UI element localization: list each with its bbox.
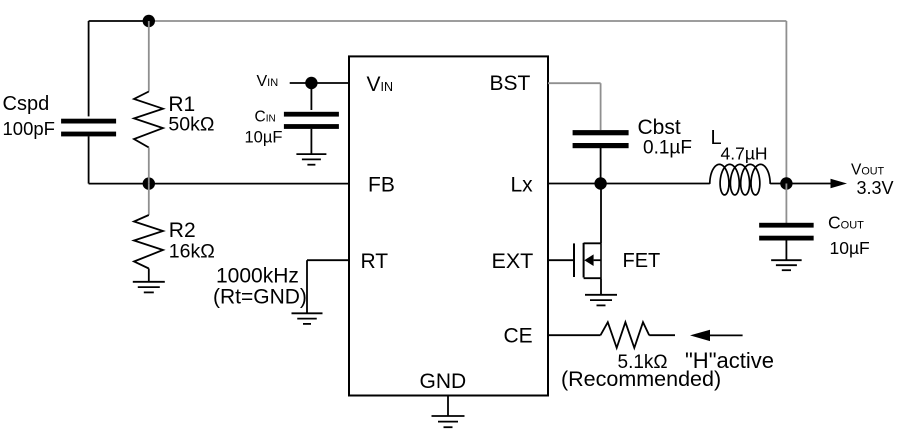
svg-text:4.7µH: 4.7µH <box>721 143 768 163</box>
wire Cbst bottom lead <box>600 148 602 184</box>
wire top-left horizontal <box>89 20 149 22</box>
junction dot VIN node <box>305 77 317 89</box>
svg-text:FB: FB <box>368 173 395 196</box>
svg-text:(Rt=GND): (Rt=GND) <box>213 286 307 309</box>
svg-text:BST: BST <box>490 72 531 95</box>
wire RT horizontal <box>307 259 349 261</box>
svg-text:0.1µF: 0.1µF <box>643 138 692 159</box>
arrow CE H-active (points left) <box>690 330 710 341</box>
capacitor CIN <box>284 112 339 117</box>
ground R2 <box>133 282 165 293</box>
svg-text:CIN: CIN <box>255 108 276 125</box>
svg-text:Lx: Lx <box>511 173 534 196</box>
capacitor Cspd <box>61 119 116 124</box>
wire Lx from IC <box>548 183 601 185</box>
wire R2 top lead <box>148 184 150 215</box>
svg-text:Cbst: Cbst <box>638 116 681 139</box>
wire FET source horizontal <box>584 277 601 279</box>
svg-text:3.3V: 3.3V <box>857 178 894 198</box>
wire BST vertical to Cbst <box>600 83 602 130</box>
svg-text:10µF: 10µF <box>830 238 870 258</box>
svg-text:EXT: EXT <box>492 249 534 273</box>
ground COUT <box>771 260 802 270</box>
ground CIN <box>296 154 326 165</box>
wire R1 top lead <box>148 21 150 92</box>
junction dot node A (top) <box>143 15 155 27</box>
capacitor Cbst <box>573 130 629 135</box>
wire right vertical down to Lx node <box>785 21 787 184</box>
op-amp/IC block U1 body <box>349 56 548 395</box>
svg-text:COUT: COUT <box>828 213 864 233</box>
wire CE arrow tail <box>710 334 743 336</box>
inductor L coil <box>710 164 770 195</box>
svg-text:RT: RT <box>361 250 389 273</box>
svg-text:CE: CE <box>504 325 533 348</box>
ground IC GND <box>432 416 465 427</box>
wire RT vertical to ground <box>306 260 308 313</box>
wire inductor to VOUT node <box>770 183 786 185</box>
svg-text:50kΩ: 50kΩ <box>168 113 214 135</box>
ground FET <box>585 295 617 306</box>
wire VOUT arrow lead <box>786 183 830 185</box>
svg-text:FET: FET <box>623 250 661 272</box>
svg-text:10µF: 10µF <box>245 129 283 147</box>
svg-text:(Recommended): (Recommended) <box>561 367 721 391</box>
resistor 5.1k zigzag <box>601 322 650 348</box>
arrow FET body (points left) <box>584 254 593 266</box>
resistor R1 zigzag <box>134 92 163 148</box>
resistor R2 zigzag <box>134 215 163 269</box>
wire Lx to inductor <box>601 183 710 185</box>
svg-text:Cspd: Cspd <box>3 93 50 115</box>
arrow VOUT output <box>831 179 848 188</box>
transistor Q1 FET channel bar <box>583 243 585 278</box>
svg-text:GND: GND <box>420 370 467 393</box>
ground RT <box>292 313 323 324</box>
wire CE from IC <box>548 334 601 336</box>
svg-text:100pF: 100pF <box>3 118 55 139</box>
wire VIN to IC <box>290 82 349 84</box>
transistor Q1 FET gate bar <box>573 243 575 277</box>
junction dot FB node <box>143 177 155 189</box>
wire top net (node A to VOUT column) <box>149 20 787 22</box>
wire R1 bottom lead <box>148 148 150 184</box>
wire COUT bottom lead <box>785 240 787 260</box>
svg-text:R2: R2 <box>169 219 196 242</box>
wire EXT to FET gate <box>548 259 574 261</box>
wire FET body to source <box>594 259 601 261</box>
junction dot VOUT node <box>780 177 792 189</box>
capacitor COUT <box>759 223 814 228</box>
wire Cspd bottom lead <box>88 136 90 183</box>
wire Cspd top lead <box>88 21 90 116</box>
svg-text:16kΩ: 16kΩ <box>169 241 215 263</box>
wire FB net horizontal <box>89 183 349 185</box>
wire FET source vertical <box>600 278 602 295</box>
wire BST horizontal <box>548 82 601 84</box>
wire CE right lead <box>649 334 675 336</box>
wire R2 bottom lead <box>148 269 150 282</box>
wire GND pin lead <box>447 396 449 417</box>
svg-text:VIN: VIN <box>257 73 279 90</box>
svg-text:VIN: VIN <box>367 73 394 96</box>
wire COUT top lead <box>785 184 787 224</box>
junction dot Lx node <box>594 177 606 189</box>
svg-text:1000kHz: 1000kHz <box>216 265 299 288</box>
wire CIN bottom lead <box>310 129 312 154</box>
wire FET drain-source vertical bar <box>600 243 602 278</box>
wire CIN top lead <box>310 83 312 110</box>
wire FET drain vertical to Lx node <box>600 184 602 244</box>
svg-text:VOUT: VOUT <box>851 162 885 179</box>
wire FET drain horizontal <box>584 242 601 244</box>
